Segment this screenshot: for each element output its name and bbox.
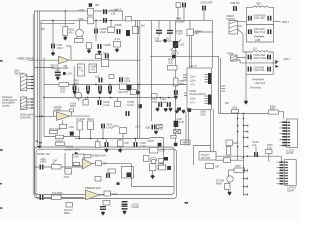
box TDA8708 xyxy=(199,152,216,161)
resistor R208 xyxy=(114,42,121,48)
wire vertical x151.5 xyxy=(151,20,153,121)
svg-text:PB 8MM SW: PB 8MM SW xyxy=(91,154,106,158)
resistor inside PB box xyxy=(73,162,79,165)
scan edge dash 4 xyxy=(0,207,2,208)
svg-text:AMP: AMP xyxy=(182,141,188,145)
svg-text:PB/8MM SW2: PB/8MM SW2 xyxy=(85,186,101,190)
svg-text:M0M: M0M xyxy=(70,104,77,108)
box LM filter xyxy=(95,55,101,59)
svg-text:R0A 100k: R0A 100k xyxy=(49,127,61,131)
box U2 feedback xyxy=(70,109,74,112)
grounds below big box xyxy=(175,110,180,114)
svg-text:TDA: TDA xyxy=(60,89,65,93)
svg-text:TnP/M: TnP/M xyxy=(72,148,80,152)
box S10 xyxy=(120,84,127,90)
wire right rail vertical xyxy=(212,20,214,68)
wire R0M left xyxy=(229,170,235,176)
svg-text:10k: 10k xyxy=(168,61,173,65)
wire R10b down xyxy=(268,154,270,162)
capacitor mid2 xyxy=(167,102,171,107)
wire vertical chain x175.5 xyxy=(175,20,177,146)
wire variable arrow xyxy=(171,40,182,51)
svg-text:.47uF: .47uF xyxy=(151,100,158,104)
capacitor C97 xyxy=(105,142,109,147)
op-amp U2 xyxy=(57,112,71,120)
box 7AM YF2 xyxy=(89,64,97,73)
IC CX2 pin dashes xyxy=(280,162,284,185)
svg-text:wChIP: wChIP xyxy=(286,151,294,155)
transistor Q9 xyxy=(227,176,233,182)
wire C206 stem xyxy=(95,20,97,41)
wire vertical x243.5 xyxy=(243,165,245,196)
wire vertical x72.5 xyxy=(73,66,75,98)
IC U10 pin stubs 1 xyxy=(205,75,209,83)
wire OUT1 xyxy=(274,21,281,23)
box PC30 regulator xyxy=(187,29,194,35)
connector S2B hatch xyxy=(156,125,162,129)
svg-text:100uF: 100uF xyxy=(155,39,163,43)
capacitor U4 C1 xyxy=(100,206,106,210)
box C10B xyxy=(55,142,64,145)
node dot mid3 xyxy=(110,97,112,99)
wire top cluster stem xyxy=(178,8,184,21)
diode PB xyxy=(75,152,79,155)
svg-text:T0M 0M: T0M 0M xyxy=(230,1,240,5)
box U3 out xyxy=(96,161,102,166)
ground below mid caps xyxy=(163,108,168,112)
wire PB stage1 vertical xyxy=(64,153,66,172)
box S0M9 xyxy=(149,147,158,153)
capacitor F1C1 xyxy=(248,16,252,21)
capacitor near S0M9 xyxy=(158,143,162,147)
ground U1 cap xyxy=(51,52,56,56)
node dots bus col2 xyxy=(237,131,239,133)
ground x138 xyxy=(136,91,141,95)
ground below C208 xyxy=(97,51,102,55)
box right of TDA xyxy=(223,158,230,163)
wire C209 stem xyxy=(158,20,160,36)
node dot y113 a xyxy=(237,113,239,115)
box W06 xyxy=(226,140,233,146)
box R90 xyxy=(60,124,67,128)
resistor R0M xyxy=(234,168,245,173)
filter2 frame xyxy=(246,52,276,88)
connector J2 hatch lines xyxy=(21,98,27,110)
connector VIDEO hatch xyxy=(229,21,238,32)
svg-text:C230 100P: C230 100P xyxy=(200,1,213,5)
wire top rail 1 xyxy=(35,11,123,20)
ground Q9 xyxy=(227,192,232,196)
capacitor below box xyxy=(188,108,192,112)
connector J1 pins xyxy=(27,77,32,89)
wire PC30 stem xyxy=(190,20,213,32)
capacitor F2C3 xyxy=(248,67,252,72)
ground below C74 xyxy=(108,91,113,95)
wire U4 out stub xyxy=(100,194,105,196)
capacitor on chain bottom xyxy=(174,143,178,146)
svg-text:wDHP: wDHP xyxy=(287,188,295,192)
wire verticals below big box xyxy=(186,112,189,146)
svg-text:AT.M: AT.M xyxy=(113,124,119,128)
resistor R207 xyxy=(87,43,92,49)
svg-text:S2B: S2B xyxy=(145,125,150,129)
svg-text:C202: C202 xyxy=(78,8,85,12)
inductor L2 xyxy=(254,36,264,37)
box PB amp section outer xyxy=(35,147,175,195)
wire bus line 2 xyxy=(39,11,41,146)
frame tick 1 xyxy=(36,141,38,142)
IC CX2 inner stubs xyxy=(285,162,288,185)
box Y02 xyxy=(102,60,109,67)
box right of C71 xyxy=(109,75,114,79)
box Q9 base xyxy=(225,184,231,190)
crystal X1 dark bar xyxy=(174,121,179,127)
capacitor C201b xyxy=(103,18,107,23)
node dot r1 xyxy=(79,138,81,140)
node dots on y84.5 xyxy=(73,84,75,86)
connector VIDEO hatched xyxy=(229,21,238,35)
capacitor C204 xyxy=(117,29,121,34)
box mid xyxy=(55,135,63,138)
node dot q2 xyxy=(87,97,89,99)
wire left frame gray double xyxy=(32,14,34,195)
svg-text:R06: R06 xyxy=(233,106,238,110)
inductor L1 xyxy=(253,6,269,7)
box below W06 xyxy=(226,147,231,156)
svg-text:0M0.1: 0M0.1 xyxy=(282,20,290,24)
capacitor C91 xyxy=(70,132,74,136)
resistor R205 xyxy=(108,27,115,33)
ground stack B xyxy=(122,211,127,215)
connector J1 pin arrows xyxy=(31,76,34,90)
capacitor Q5 xyxy=(164,157,168,161)
capacitor C73 xyxy=(98,86,102,91)
wire R205 stem xyxy=(110,20,112,27)
capacitor F2C4 xyxy=(267,67,271,72)
wire Q9 leads xyxy=(228,182,230,192)
ground between caps xyxy=(163,39,168,43)
wire PC30 down pair xyxy=(189,36,191,68)
wire middle rail y97.5 xyxy=(44,97,176,99)
wire vertical x245.7 xyxy=(242,114,244,169)
wire bus line 3 xyxy=(40,20,42,147)
connector J2 pin arrows xyxy=(31,98,34,109)
wire stems under rail xyxy=(86,98,118,102)
box on rail x151 xyxy=(152,94,158,98)
svg-text:100n: 100n xyxy=(190,97,196,101)
IC CX1 body xyxy=(287,119,298,147)
svg-text:C0M: C0M xyxy=(112,192,118,196)
node dots on y97.5 xyxy=(43,97,45,99)
component cluster top x175 xyxy=(176,3,181,8)
capacitor S2B xyxy=(152,125,156,130)
svg-text:TA 100k: TA 100k xyxy=(76,117,86,121)
tiny dash bottom xyxy=(185,202,189,204)
svg-text:M0M: M0M xyxy=(64,211,71,215)
resistor PB R4 xyxy=(52,195,62,200)
box PB net xyxy=(122,167,134,179)
wire PB input 1 xyxy=(35,166,83,168)
wire y161.5 to IC2 xyxy=(216,156,282,161)
box +12V xyxy=(66,203,73,208)
svg-text:4.7u: 4.7u xyxy=(190,101,195,105)
capacitor F1C2 xyxy=(267,16,271,21)
resistor U3 feedback xyxy=(84,155,91,158)
svg-text:1uF: 1uF xyxy=(252,143,257,147)
box C AMP xyxy=(181,140,191,145)
svg-text:S10 A7U: S10 A7U xyxy=(118,90,128,94)
wire U2 down xyxy=(62,120,64,124)
wire left frame vertical xyxy=(34,11,36,197)
ground below C97 xyxy=(104,149,109,153)
svg-text:M0M: M0M xyxy=(216,182,223,186)
wire bus line 4 xyxy=(43,58,45,137)
svg-text:C20: C20 xyxy=(180,43,185,47)
arrow glyph right 2 xyxy=(275,65,279,68)
wire filter2 ground stem xyxy=(245,88,247,101)
resistor R206 xyxy=(133,27,139,34)
node dot F2 out xyxy=(275,62,277,64)
capacitor C31 xyxy=(174,90,178,95)
wire Q2 leads xyxy=(78,87,80,101)
wire U3 out xyxy=(92,163,132,165)
wire R207 stem xyxy=(88,49,90,51)
resistor R202 xyxy=(88,8,94,15)
svg-text:T0M: T0M xyxy=(256,1,262,5)
svg-text:W06: W06 xyxy=(233,141,239,145)
box PB R2 xyxy=(95,177,101,182)
svg-text:10uF: 10uF xyxy=(100,30,107,34)
wire right bus a xyxy=(218,56,220,113)
svg-text:C0A: C0A xyxy=(69,125,74,129)
svg-text:100n: 100n xyxy=(190,75,196,79)
box Q5 right xyxy=(159,159,164,164)
svg-text:0.0uF: 0.0uF xyxy=(127,103,134,107)
transistor Q5 xyxy=(151,157,157,163)
node dots x243.5 xyxy=(243,170,245,172)
svg-text:4.7u: 4.7u xyxy=(190,83,195,87)
node dots bus col xyxy=(237,118,239,120)
svg-text:0.00uF: 0.00uF xyxy=(176,20,185,24)
capacitor C20 electrolytic body xyxy=(173,41,178,48)
pin ticks x243.5 xyxy=(247,169,249,196)
svg-text:C0M: C0M xyxy=(200,112,206,116)
svg-text:YF2: YF2 xyxy=(91,68,96,72)
resistor PB R1 xyxy=(52,165,62,170)
box U4 right xyxy=(104,191,111,196)
wire mid rail y136.5 xyxy=(44,136,80,138)
IC CX1 inner stubs xyxy=(287,122,290,146)
svg-text:10uF: 10uF xyxy=(166,39,172,43)
ground filter2 xyxy=(244,101,249,105)
svg-text:UM 10: UM 10 xyxy=(189,64,197,68)
connector S2B hatched xyxy=(156,124,162,129)
resistor R204 xyxy=(75,39,84,43)
resistor R99 xyxy=(118,140,124,147)
scan edge dash 2 xyxy=(0,149,3,150)
wire PB input 2 xyxy=(35,197,85,199)
wire W/TC cross xyxy=(174,129,181,133)
resistor R202b xyxy=(88,17,94,24)
svg-text:LF356: LF356 xyxy=(132,205,140,209)
box Q5 left xyxy=(144,156,150,162)
svg-text:7.7k: 7.7k xyxy=(78,68,83,72)
wire R201 stem xyxy=(64,11,66,37)
wire S2B rail xyxy=(150,138,164,166)
svg-text:circuits: circuits xyxy=(2,103,10,107)
wire horizontal y113.5 xyxy=(219,113,268,115)
svg-text:0M B/C aM: 0M B/C aM xyxy=(37,152,50,156)
wire stub ground x138 xyxy=(137,85,139,93)
box on rail2 right xyxy=(126,17,132,21)
svg-text:+12V: +12V xyxy=(135,125,141,129)
resistor R80 xyxy=(83,100,88,106)
ground below C72b xyxy=(86,91,91,95)
box R97 xyxy=(120,128,127,134)
IC CX2 left stubs xyxy=(277,162,280,184)
capacitor C72b xyxy=(86,86,90,91)
svg-text:0WuF 0/A0: 0WuF 0/A0 xyxy=(254,56,267,60)
IC CX2 body xyxy=(284,160,296,186)
ground below R208 xyxy=(115,49,120,53)
connector J1 hatch lines xyxy=(21,75,27,90)
wire R0M right xyxy=(244,169,245,171)
capacitor C201 xyxy=(103,9,107,14)
capacitor C72 xyxy=(73,86,77,91)
ground below C31 xyxy=(174,96,179,100)
wire R206 stem xyxy=(135,20,137,26)
box TA xyxy=(77,121,83,130)
wire Q6 down xyxy=(152,171,154,176)
capacitor C95 xyxy=(126,111,130,116)
wire U1 cap stem xyxy=(52,20,54,52)
ground below C73 xyxy=(98,91,103,95)
wire vertical x193.5 xyxy=(194,146,211,166)
node dot mid2 xyxy=(99,97,101,99)
dark blob on chain xyxy=(172,55,176,58)
filter1 frame xyxy=(246,7,273,42)
box PB diode box xyxy=(72,154,84,166)
svg-text:CONTR: CONTR xyxy=(226,17,235,21)
wire stems caps row xyxy=(75,85,111,86)
bus pin ticks xyxy=(221,86,225,91)
svg-text:0.1uF: 0.1uF xyxy=(124,79,131,83)
svg-text:0.1U: 0.1U xyxy=(160,149,165,153)
connector J2 hatched xyxy=(21,97,27,110)
svg-text:.0uF .A00: .0uF .A00 xyxy=(254,16,265,20)
svg-text:C0M: C0M xyxy=(73,155,79,159)
svg-text:Window 80Khz: Window 80Khz xyxy=(189,92,206,96)
wire rail y138.5 xyxy=(75,138,150,140)
box Q6 xyxy=(149,164,156,171)
capacitor mid1 xyxy=(158,102,162,107)
connector TRIM xyxy=(231,55,238,61)
box below WTC xyxy=(171,135,176,138)
svg-text:80uF PUF: 80uF PUF xyxy=(254,30,266,34)
wire U1 input2 xyxy=(35,67,55,69)
wire video pins xyxy=(238,22,247,52)
svg-text:C0M7: C0M7 xyxy=(147,139,154,143)
dark blob right of C61 xyxy=(63,72,66,75)
connector J1 hatched xyxy=(21,74,27,91)
frame tick 2 xyxy=(39,142,42,143)
ground below R99 xyxy=(118,149,123,153)
capacitor C98 xyxy=(134,142,138,147)
resistor R06 xyxy=(232,110,239,114)
svg-text:C204: C204 xyxy=(115,23,122,27)
capacitor above R202 xyxy=(89,3,92,7)
capacitor PB C1 xyxy=(40,165,44,170)
capacitor NC10 xyxy=(254,152,258,157)
IC CX1 left stubs xyxy=(280,122,283,145)
wire from box left xyxy=(44,84,59,86)
resistor U4 R xyxy=(103,201,110,206)
node dots bus col3 xyxy=(237,146,239,148)
wire NC10 xyxy=(255,147,257,158)
svg-text:C0uF 0uF: C0uF 0uF xyxy=(254,68,266,72)
IC U10 pin bar 1 xyxy=(208,73,211,84)
svg-text:L0B: L0B xyxy=(255,38,260,42)
capacitor PB C4 xyxy=(40,195,44,200)
op-amp U3 xyxy=(83,159,93,170)
capacitor F1C3 xyxy=(248,29,252,34)
IC U10 pin bar 2 xyxy=(208,95,211,105)
wire stems row2 xyxy=(98,139,121,150)
box C04 xyxy=(78,64,85,76)
capacitor PB C2 xyxy=(106,173,110,178)
capacitor C206 xyxy=(94,29,98,34)
resistor R201 xyxy=(63,27,68,36)
node dot r3 xyxy=(102,138,104,140)
capacitor F2C2 xyxy=(267,55,271,60)
node dot r2 xyxy=(90,138,92,140)
svg-text:TnP: TnP xyxy=(267,146,272,150)
wire verticals below box xyxy=(211,109,214,153)
svg-text:100n: 100n xyxy=(190,79,196,83)
svg-text:wh0.1: wh0.1 xyxy=(283,57,290,61)
box R30 horizontal xyxy=(168,66,178,71)
box below TDA xyxy=(206,164,214,169)
capacitor stack B2 xyxy=(122,206,128,210)
scan edge dash 3 xyxy=(0,183,2,184)
svg-text:0.1uF: 0.1uF xyxy=(103,103,110,107)
wire C05 stub xyxy=(150,55,219,57)
transistor Q6 circle xyxy=(152,159,156,163)
capacitor C71 xyxy=(99,78,103,83)
box T0M xyxy=(159,165,166,170)
capacitor U4 C2 xyxy=(122,201,128,205)
capacitor F1C4 xyxy=(267,29,271,34)
ground below R207 xyxy=(87,50,92,54)
ground Q6 xyxy=(150,175,155,179)
wire C210 stem xyxy=(169,20,171,36)
wire to bus xyxy=(230,159,243,161)
node dots on rail2 xyxy=(52,20,54,22)
inductor L3 xyxy=(252,51,268,52)
resistor R31 vertical xyxy=(174,78,179,86)
wire drive line xyxy=(28,59,35,61)
box PB amp section inner xyxy=(36,149,177,198)
svg-text:T0A MPA: T0A MPA xyxy=(52,191,63,195)
IC U10 pin stubs 2 xyxy=(205,96,209,104)
transistor Q2 xyxy=(75,92,82,99)
wire TDA right xyxy=(216,159,223,161)
inductor L4 xyxy=(252,79,263,80)
svg-text:1.2k: 1.2k xyxy=(111,11,116,15)
svg-text:P0M: P0M xyxy=(270,104,276,108)
svg-text:(C/NSPA): (C/NSPA) xyxy=(20,115,31,119)
op-amp U1 xyxy=(59,56,70,64)
